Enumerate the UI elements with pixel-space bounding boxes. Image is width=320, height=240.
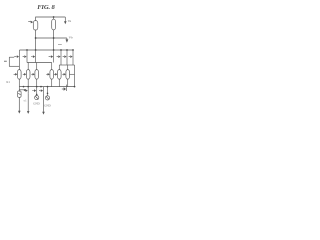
port tick <box>4 60 7 62</box>
resistor bottom leads <box>19 79 67 87</box>
transistor Q1 (right, below bus2) <box>62 85 67 91</box>
arrow into R4 <box>31 73 35 76</box>
terminal G1 <box>35 96 39 100</box>
node dot mid right <box>53 37 55 39</box>
bus2 <box>19 86 74 88</box>
stub from R7 to right column <box>70 73 75 75</box>
diode D3 <box>31 50 35 63</box>
diode D7 <box>69 50 73 65</box>
node dot mid left <box>35 37 37 39</box>
bus1 <box>20 49 74 51</box>
resistor R2 <box>18 70 22 80</box>
diode D6 <box>63 50 67 65</box>
diode D8 <box>24 87 28 94</box>
output arrow O3 <box>42 93 45 114</box>
resistor R5 <box>50 70 54 80</box>
wire rail mid-low right <box>59 65 74 87</box>
link wire below bus2 left <box>19 89 25 91</box>
svg-text:o1: o1 <box>24 99 28 103</box>
arrow into R3 <box>23 73 27 76</box>
component B1 (resonator box, top left) <box>33 21 38 30</box>
input arrow Va (top right) <box>64 17 67 24</box>
wire B1 bottom down to bus1 <box>35 30 37 50</box>
title FIG. 8 <box>37 4 55 11</box>
wire R1 bottom down to bus1 <box>53 30 55 50</box>
wire from B1 top to rail <box>36 17 66 21</box>
resistor R7 <box>66 70 70 80</box>
arrow into R5 <box>46 73 50 76</box>
bus1 node dots <box>26 49 28 51</box>
arrow into R6 <box>54 73 58 76</box>
resistor R4 <box>35 70 39 80</box>
output arrow O1 <box>18 97 21 113</box>
diode D9 <box>32 87 36 95</box>
svg-text:Va: Va <box>68 19 72 23</box>
input arrow Vb (mid right) <box>66 38 69 43</box>
svg-text:Vb: Vb <box>69 36 73 40</box>
bus2 node dots <box>23 86 25 88</box>
diode D4 <box>49 50 54 63</box>
diode D5 <box>57 50 61 65</box>
resistor R6 <box>58 70 62 80</box>
input port (left) <box>9 57 19 66</box>
output arrow O2 <box>27 93 30 114</box>
component X1 (small box, lower left) <box>18 87 22 98</box>
diode D2 <box>23 50 27 63</box>
terminal G2 <box>45 87 49 100</box>
svg-text:FIG. 8: FIG. 8 <box>37 4 55 11</box>
wire rail mid-low left <box>19 63 51 70</box>
node dot at top rail <box>53 16 55 18</box>
diode D1 <box>14 50 19 66</box>
svg-text:GND: GND <box>33 101 40 105</box>
small mark <box>58 44 62 46</box>
resistor R3 <box>26 70 30 80</box>
svg-text:GND: GND <box>44 103 51 107</box>
arrow into B1 <box>28 21 33 24</box>
diode D10 <box>39 87 43 94</box>
mid horizontal wire <box>36 37 67 39</box>
resistor R1 (top) <box>52 17 56 30</box>
svg-text:R1: R1 <box>6 80 10 84</box>
arrow into R7 <box>62 73 66 76</box>
arrow into R2 <box>14 73 18 76</box>
